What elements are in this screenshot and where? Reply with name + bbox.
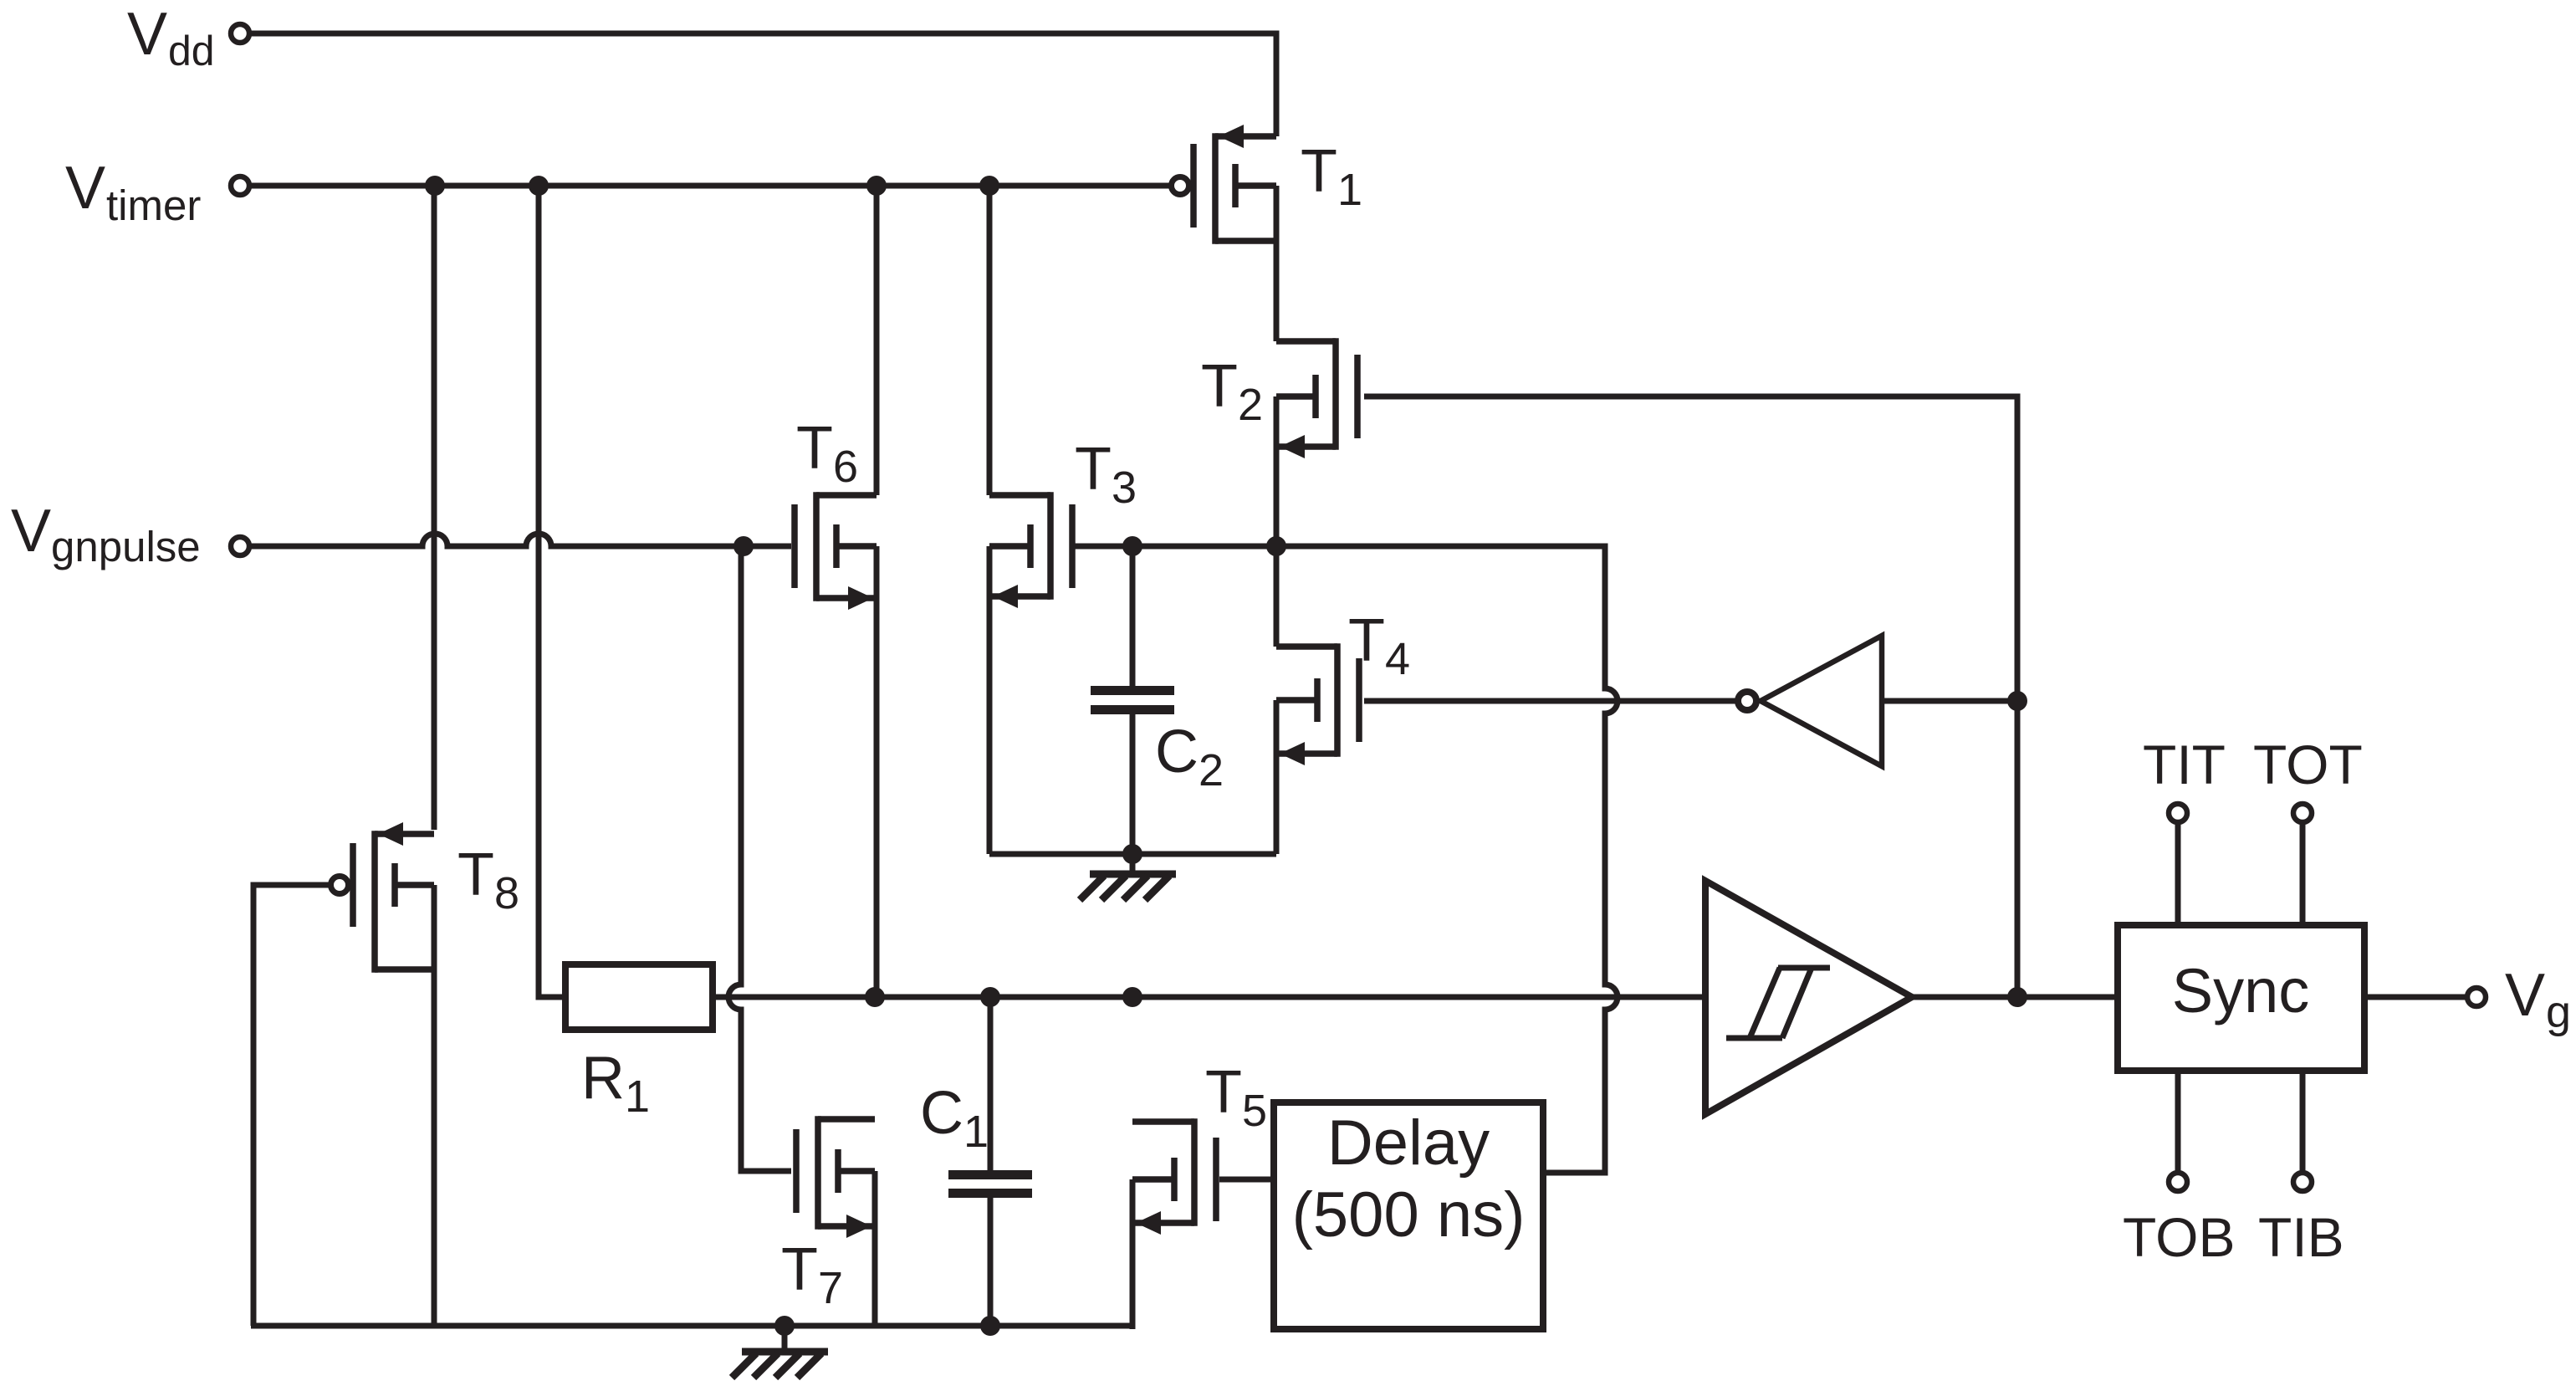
svg-text:1: 1 <box>1337 165 1362 215</box>
wire Vgnpulse to T7 gate with hop <box>728 546 791 1171</box>
Vgnpulse wire with crossover hops <box>250 534 791 546</box>
schmitt hysteresis glyph <box>1726 968 1830 1038</box>
label T8 <box>457 841 519 918</box>
capacitor C2 <box>1091 686 1174 714</box>
node B dots <box>865 987 1142 1007</box>
node Vgnpulse junction dot <box>733 536 754 556</box>
wire Vtimer to T6 drain <box>874 186 880 495</box>
label T7 <box>781 1236 843 1313</box>
label T4 <box>1348 607 1410 684</box>
wire inverter input <box>1882 698 2017 704</box>
label C2 <box>1155 719 1224 795</box>
inverter U2 bubble <box>1738 692 1756 710</box>
node dot C1 bottom <box>980 1316 1000 1336</box>
svg-text:g: g <box>2546 987 2571 1037</box>
wire T7 source to bottom rail <box>872 1171 878 1326</box>
capacitor C1 bottom wire <box>988 1197 994 1326</box>
capacitor C1 <box>948 1170 1032 1198</box>
node dot feedback at Vg net <box>2007 987 2027 1007</box>
svg-text:6: 6 <box>833 442 858 492</box>
label TOT <box>2253 734 2363 795</box>
Vdd supply wire to T1 source <box>249 33 1276 136</box>
svg-text:T: T <box>1075 436 1112 503</box>
Vdd input terminal <box>127 1 249 74</box>
node dot inverter input <box>2007 691 2027 711</box>
delay block <box>1274 1102 1543 1329</box>
wire Vtimer to R1 left lead <box>539 186 565 997</box>
svg-text:C: C <box>1155 719 1199 785</box>
transistor T6 <box>795 492 877 610</box>
svg-text:R: R <box>581 1045 625 1112</box>
label TIT <box>2143 734 2226 795</box>
wire T3 source to ground rail <box>987 546 993 854</box>
capacitor C2 top wire <box>1130 546 1136 687</box>
svg-text:C: C <box>920 1080 963 1147</box>
Vg output terminal <box>2364 962 2571 1037</box>
svg-text:TOB: TOB <box>2123 1206 2235 1268</box>
Vtimer wire <box>250 183 1171 189</box>
label C1 <box>920 1080 989 1157</box>
svg-text:Sync: Sync <box>2172 956 2310 1025</box>
label R1 <box>581 1045 650 1122</box>
node Vtimer junction dots <box>425 176 999 196</box>
label TOB <box>2123 1206 2235 1268</box>
svg-text:TIT: TIT <box>2143 734 2226 795</box>
transistor T4 <box>1276 643 1359 765</box>
svg-text:V: V <box>65 155 105 222</box>
label T6 <box>796 415 858 492</box>
svg-text:V: V <box>127 1 167 68</box>
label T2 <box>1201 353 1263 430</box>
svg-text:T: T <box>781 1236 818 1303</box>
svg-text:2: 2 <box>1199 745 1224 795</box>
label TIB <box>2258 1206 2344 1268</box>
svg-text:7: 7 <box>818 1263 843 1313</box>
sync pin TOB <box>2169 1071 2187 1191</box>
ground symbol below T7 <box>732 1326 828 1378</box>
transistor T2 <box>1276 338 1357 458</box>
sync pin TOT <box>2293 804 2312 925</box>
wire T5 gate to delay input <box>1219 1177 1274 1183</box>
label T5 <box>1205 1059 1267 1136</box>
Vgnpulse input terminal <box>11 498 249 570</box>
svg-text:1: 1 <box>963 1107 989 1157</box>
transistor T3 <box>989 492 1072 608</box>
transistor T7 <box>796 1116 875 1238</box>
svg-text:(500 ns): (500 ns) <box>1292 1179 1526 1250</box>
svg-text:TOT: TOT <box>2253 734 2363 795</box>
svg-text:2: 2 <box>1238 380 1263 430</box>
transistor T5 <box>1132 1118 1216 1235</box>
capacitor C1 top wire <box>988 997 994 1171</box>
label sync <box>2172 956 2310 1025</box>
svg-text:TIB: TIB <box>2258 1206 2344 1268</box>
label T3 <box>1075 436 1137 513</box>
svg-text:8: 8 <box>494 868 519 918</box>
wire T4 source to ground rail <box>1274 700 1280 854</box>
wire T6 source to node B <box>874 546 880 997</box>
wire T2 source to node A <box>1274 396 1280 550</box>
label T1 <box>1301 138 1362 215</box>
svg-text:Delay: Delay <box>1327 1107 1490 1179</box>
svg-text:V: V <box>11 498 51 565</box>
sync pin TIB <box>2293 1071 2312 1191</box>
svg-text:timer: timer <box>106 182 201 229</box>
wire node A to T4 drain <box>1274 546 1280 647</box>
bottom ground rail <box>251 1323 1132 1329</box>
svg-text:gnpulse: gnpulse <box>51 523 201 570</box>
svg-text:V: V <box>2505 962 2545 1029</box>
ground rail under C2 <box>989 852 1276 857</box>
svg-text:4: 4 <box>1385 634 1410 684</box>
svg-text:5: 5 <box>1242 1086 1267 1136</box>
svg-text:1: 1 <box>625 1071 650 1122</box>
inverter U2 <box>1761 636 1882 766</box>
Vtimer input terminal <box>65 155 249 229</box>
node B wire R1 to schmitt input <box>713 995 1705 1000</box>
node A dot at T2 source <box>1266 536 1286 556</box>
wire T5 source to bottom rail <box>1130 1179 1136 1329</box>
wire T8 drain to bottom rail <box>432 885 437 1326</box>
wire T1 drain to T2 drain <box>1274 186 1280 341</box>
sync pin TIT <box>2169 804 2187 925</box>
svg-text:T: T <box>796 415 833 482</box>
svg-text:T: T <box>1348 607 1385 674</box>
node dot ground T7 <box>774 1316 795 1336</box>
node A dot at C2 <box>1122 536 1142 556</box>
schmitt trigger U1 <box>1705 881 1912 1114</box>
capacitor C2 bottom wire <box>1130 713 1136 854</box>
ground symbol under C2 <box>1080 854 1176 900</box>
sync block <box>2118 925 2364 1071</box>
wire schmitt output to sync <box>1912 995 2118 1000</box>
svg-text:T: T <box>457 841 494 908</box>
node A wire T3 gate to delay feedback <box>1075 546 1618 1173</box>
svg-text:T: T <box>1301 138 1337 205</box>
wire T4 gate to inverter output <box>1364 698 1735 704</box>
node ground dot C2 <box>1122 844 1142 864</box>
wire Vtimer to T3 drain <box>987 186 993 495</box>
svg-text:T: T <box>1201 353 1238 420</box>
svg-text:dd: dd <box>168 28 215 74</box>
wire T8 gate to bottom rail <box>253 885 334 1326</box>
transistor T8 <box>331 822 435 973</box>
svg-text:T: T <box>1205 1059 1242 1126</box>
resistor R1 <box>565 964 713 1030</box>
label delay <box>1292 1107 1526 1250</box>
svg-text:3: 3 <box>1112 463 1137 513</box>
wire Vtimer to T8 source <box>432 186 437 830</box>
transistor T1 <box>1172 125 1277 244</box>
wire T2 gate to feedback bus <box>1364 396 2017 997</box>
